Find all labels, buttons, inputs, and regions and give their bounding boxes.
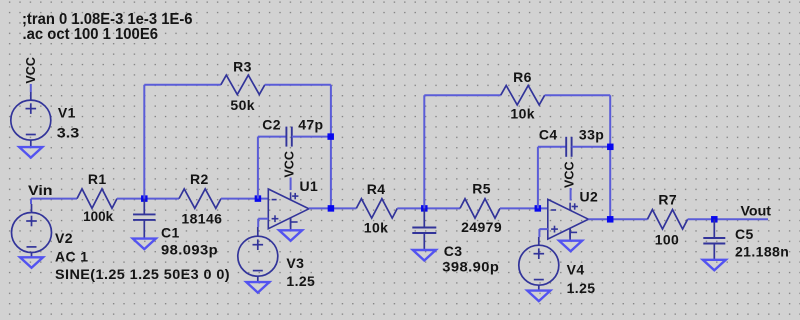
svg-text:Vin: Vin — [28, 182, 53, 198]
wire — [290, 178, 292, 191]
svg-text:3.3: 3.3 — [57, 125, 80, 141]
capacitor C3 lead — [423, 233, 425, 250]
voltage source V4 pin — [538, 237, 540, 245]
svg-text:VCC: VCC — [562, 161, 576, 188]
svg-text:C1: C1 — [161, 224, 180, 240]
wire — [258, 136, 287, 138]
wire R3 feedback left — [143, 85, 145, 199]
capacitor C3 — [412, 227, 436, 229]
svg-text:R4: R4 — [367, 181, 386, 197]
svg-text:U2: U2 — [580, 188, 599, 204]
wire — [538, 146, 566, 148]
voltage source V1 pin — [30, 140, 32, 147]
wire — [500, 207, 548, 209]
svg-text:10k: 10k — [364, 220, 389, 236]
svg-text:R3: R3 — [233, 59, 252, 75]
node junction — [607, 216, 614, 223]
node junction — [535, 205, 542, 212]
wire R6 feedback right — [609, 95, 611, 219]
node junction — [607, 144, 614, 151]
wire — [545, 94, 611, 96]
ground — [703, 260, 726, 271]
op-amp U2 — [548, 199, 589, 239]
voltage source V3 pin — [257, 276, 259, 282]
op-amp U1 — [268, 189, 309, 229]
voltage source V2 — [12, 213, 52, 253]
svg-text:24979: 24979 — [461, 219, 502, 235]
svg-text:47p: 47p — [298, 117, 323, 133]
voltage source V1 — [11, 100, 51, 140]
svg-text:98.093p: 98.093p — [161, 242, 218, 258]
wire — [258, 218, 268, 220]
node junction — [328, 205, 335, 212]
svg-text:R6: R6 — [513, 69, 532, 85]
ground — [413, 250, 436, 261]
voltage source V3 — [238, 236, 278, 276]
capacitor C5 lead — [713, 219, 715, 238]
wire — [539, 228, 547, 230]
resistor R5 — [460, 199, 500, 218]
wire — [30, 199, 32, 204]
svg-text:AC 1: AC 1 — [55, 249, 89, 265]
wire U2 output — [588, 218, 647, 220]
svg-text:VCC: VCC — [282, 151, 296, 178]
ground — [19, 147, 42, 158]
svg-text:VCC: VCC — [24, 57, 38, 84]
voltage source V4 pin — [538, 285, 540, 291]
svg-text:Vout: Vout — [741, 202, 772, 218]
resistor R2 — [179, 189, 221, 208]
capacitor C5 lead — [713, 244, 715, 260]
wire — [31, 198, 77, 200]
svg-text:398.90p: 398.90p — [442, 258, 499, 274]
wire — [257, 219, 259, 227]
wire — [570, 188, 572, 201]
svg-text:R7: R7 — [658, 191, 677, 207]
wire — [221, 198, 268, 200]
wire — [424, 94, 500, 96]
svg-text:R2: R2 — [190, 171, 209, 187]
svg-text:C5: C5 — [735, 226, 754, 242]
svg-text:100k: 100k — [83, 208, 113, 224]
voltage source V2 pin — [31, 204, 33, 213]
ground — [559, 241, 582, 252]
svg-text:21.188n: 21.188n — [735, 244, 789, 260]
wire — [537, 147, 539, 209]
op-amp U2 V- pin — [569, 228, 571, 241]
capacitor C5 — [703, 237, 725, 239]
resistor R3 — [221, 75, 265, 94]
svg-text:1.25: 1.25 — [567, 280, 596, 296]
wire — [292, 136, 331, 138]
ground — [279, 230, 302, 241]
wire — [30, 84, 32, 92]
svg-text:V1: V1 — [58, 104, 76, 120]
svg-text:U1: U1 — [300, 178, 319, 194]
capacitor C3 lead — [423, 208, 425, 227]
svg-text:C3: C3 — [444, 243, 463, 259]
wire — [257, 137, 259, 199]
node junction — [255, 195, 262, 202]
voltage source V1 pin — [30, 92, 32, 100]
wire — [572, 146, 611, 148]
svg-text:R1: R1 — [88, 171, 107, 187]
ground — [527, 291, 550, 302]
node junction — [327, 133, 334, 140]
node junction — [141, 195, 148, 202]
voltage source V4 — [519, 245, 559, 285]
svg-text:50k: 50k — [230, 97, 255, 113]
svg-text:SINE(1.25 1.25 50E3 0 0): SINE(1.25 1.25 50E3 0 0) — [55, 266, 230, 282]
capacitor C1 lead — [143, 199, 145, 215]
svg-text:18146: 18146 — [181, 210, 222, 226]
capacitor C1 lead — [143, 220, 145, 239]
node junction — [421, 205, 428, 212]
wire — [538, 229, 540, 237]
svg-text:C4: C4 — [539, 126, 558, 142]
svg-text:V2: V2 — [55, 230, 73, 246]
svg-text:R5: R5 — [472, 180, 491, 196]
wire — [144, 84, 221, 86]
capacitor C4 — [565, 137, 567, 157]
svg-text:1.25: 1.25 — [286, 273, 315, 289]
wire — [265, 84, 331, 86]
svg-text:10k: 10k — [510, 105, 535, 121]
svg-text:V4: V4 — [567, 261, 585, 277]
wire — [397, 207, 460, 209]
ground — [20, 257, 43, 268]
capacitor C2 — [285, 127, 287, 147]
op-amp U1 V- pin — [290, 218, 292, 231]
resistor R4 — [356, 199, 397, 218]
resistor R1 — [77, 189, 117, 208]
ground — [133, 239, 156, 250]
wire — [117, 198, 179, 200]
node junction — [711, 216, 718, 223]
ground — [246, 282, 269, 293]
svg-text:C2: C2 — [262, 116, 281, 132]
voltage source V2 pin — [31, 252, 33, 257]
capacitor C1 — [133, 213, 156, 215]
wire R6 feedback left — [423, 95, 425, 208]
wire — [688, 218, 768, 220]
svg-text:100: 100 — [655, 231, 680, 247]
voltage source V3 pin — [257, 227, 259, 236]
svg-text:V3: V3 — [286, 255, 304, 271]
resistor R7 — [647, 210, 687, 229]
wire R3 feedback right — [330, 85, 332, 209]
svg-text:33p: 33p — [579, 127, 604, 143]
svg-text:.ac oct 100 1 100E6: .ac oct 100 1 100E6 — [23, 26, 159, 43]
wire U1 output — [309, 207, 356, 209]
resistor R6 — [501, 86, 545, 105]
